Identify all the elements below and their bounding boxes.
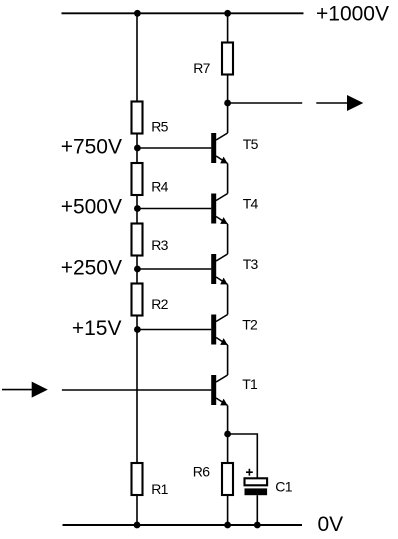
transistor T4 bbox=[211, 194, 227, 225]
svg-text:+500V: +500V bbox=[61, 196, 122, 219]
svg-text:+250V: +250V bbox=[61, 256, 122, 279]
wire T5 emitter to T4 collector bbox=[227, 164, 229, 194]
node +15V bbox=[134, 326, 141, 333]
wire output arrow shaft bbox=[316, 102, 349, 104]
wire lower node to R6 bbox=[227, 434, 229, 463]
wire T2 emitter to T1 collector bbox=[227, 345, 229, 375]
wire T2 base from +15V node bbox=[137, 329, 211, 331]
wire R7 to output node bbox=[227, 75, 229, 104]
wire 0V bottom rail bbox=[63, 524, 303, 526]
transistor T2 bbox=[211, 315, 227, 346]
svg-text:R4: R4 bbox=[151, 179, 168, 195]
svg-text:R2: R2 bbox=[151, 296, 168, 312]
svg-text:+750V: +750V bbox=[61, 136, 122, 159]
wire R2 to node +15V down to R1 bbox=[136, 316, 138, 464]
svg-text:T3: T3 bbox=[243, 256, 259, 272]
wire lower node to C1 bbox=[228, 434, 258, 478]
wire R5 to node +750V to R4 bbox=[136, 134, 138, 164]
resistor R3 bbox=[132, 224, 143, 256]
svg-text:R6: R6 bbox=[193, 463, 210, 479]
transistor T5 bbox=[211, 133, 227, 164]
node bottom rail left bbox=[134, 522, 141, 529]
resistor R4 bbox=[132, 163, 143, 195]
wire output node to arrow bbox=[228, 102, 303, 104]
svg-text:R1: R1 bbox=[151, 481, 168, 497]
wire R4 to node +500V to R3 bbox=[136, 195, 138, 224]
wire +1000V top rail bbox=[62, 12, 304, 14]
wire right column: rail to R7 bbox=[227, 13, 229, 42]
node +500V bbox=[134, 205, 141, 212]
svg-text:R5: R5 bbox=[151, 119, 168, 135]
svg-text:0V: 0V bbox=[318, 513, 344, 536]
svg-text:R7: R7 bbox=[193, 60, 210, 76]
input arrowhead bbox=[32, 382, 48, 398]
svg-text:C1: C1 bbox=[275, 479, 292, 495]
svg-text:T1: T1 bbox=[242, 376, 258, 392]
resistor R7 bbox=[222, 43, 233, 75]
wire R6 to 0V rail bbox=[227, 495, 229, 525]
node bottom rail R6 bbox=[224, 522, 231, 529]
wire left column: rail to R5 bbox=[136, 13, 138, 101]
svg-text:R3: R3 bbox=[151, 237, 168, 253]
node junction dot top rail left bbox=[134, 10, 141, 17]
wire T1 emitter to lower node bbox=[227, 406, 229, 435]
wire input arrow shaft bbox=[2, 389, 33, 391]
transistor T3 bbox=[211, 254, 227, 285]
wire R3 to node +250V to R2 bbox=[136, 256, 138, 284]
wire T3 base from +250V node bbox=[137, 268, 211, 270]
wire T4 base from +500V node bbox=[137, 208, 211, 210]
wire C1 to 0V rail bbox=[256, 495, 258, 525]
capacitor C1 bbox=[245, 469, 268, 495]
svg-text:T5: T5 bbox=[243, 136, 259, 152]
node T1 emitter junction bbox=[224, 431, 231, 438]
node junction dot top rail right bbox=[224, 10, 231, 17]
node +750V bbox=[134, 145, 141, 152]
svg-text:T4: T4 bbox=[243, 195, 259, 211]
svg-text:+1000V: +1000V bbox=[316, 2, 389, 25]
svg-text:+15V: +15V bbox=[72, 317, 122, 340]
wire R1 to 0V rail bbox=[136, 495, 138, 525]
wire T1 base input line bbox=[62, 389, 211, 391]
node bottom rail C1 bbox=[254, 522, 261, 529]
node +250V bbox=[134, 266, 141, 273]
wire T4 emitter to T3 collector bbox=[227, 224, 229, 254]
resistor R1 bbox=[132, 463, 143, 495]
svg-text:T2: T2 bbox=[242, 316, 258, 332]
transistor T1 bbox=[211, 375, 227, 406]
output arrowhead bbox=[347, 95, 363, 111]
wire T5 base from +750V node bbox=[137, 147, 211, 149]
wire T3 emitter to T2 collector bbox=[227, 285, 229, 315]
resistor R5 bbox=[132, 102, 143, 134]
wire T5 collector bbox=[227, 103, 229, 133]
node output bbox=[224, 100, 231, 107]
resistor R2 bbox=[132, 284, 143, 316]
resistor R6 bbox=[222, 463, 233, 495]
